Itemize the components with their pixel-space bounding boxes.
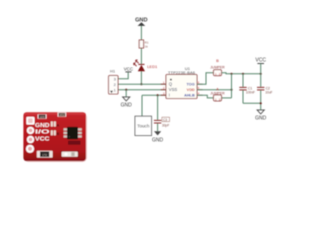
svg-text:B: B <box>216 58 219 63</box>
svg-text:472: 472 <box>60 113 65 117</box>
IC U1 TTP223E-BA6 <box>161 66 203 98</box>
wire jumper A riser <box>231 74 233 98</box>
pin 5 VDD stub <box>197 89 203 91</box>
wire H1 GND drop <box>125 90 127 97</box>
wire GND row H1 pin1 to U1 VSS <box>118 89 166 91</box>
LED LED1 <box>134 60 158 71</box>
pin 3 I stub <box>161 94 166 96</box>
capacitor C1 <box>239 86 255 94</box>
hole bottom <box>26 145 34 153</box>
svg-text:TOG: TOG <box>187 82 195 86</box>
pin 1 Q stub <box>161 83 166 85</box>
wire GND stem to R1 <box>140 25 142 41</box>
svg-text:1k: 1k <box>145 44 149 48</box>
wire drop to C3 <box>157 95 159 120</box>
hole VCC <box>27 136 34 143</box>
capacitor C2 <box>257 86 273 94</box>
svg-text:GND: GND <box>121 102 133 108</box>
svg-text:100nF: 100nF <box>246 91 255 95</box>
svg-text:I: I <box>169 92 170 97</box>
pin 2 VSS stub <box>161 89 166 91</box>
svg-text:I/O: I/O <box>35 130 50 136</box>
node C3 junction <box>157 94 159 96</box>
ground top <box>135 17 147 26</box>
svg-text:B: B <box>57 132 60 136</box>
chip R top (103) <box>38 114 47 119</box>
hole I/O <box>27 127 34 134</box>
ground C3 <box>152 131 164 143</box>
node VDD riser junction <box>230 89 232 91</box>
svg-text:10uF: 10uF <box>265 91 272 95</box>
svg-text:GND: GND <box>255 116 267 122</box>
pin 4 AHLB stub <box>197 94 203 96</box>
svg-text:Touch: Touch <box>137 124 150 129</box>
node C2 on rail <box>260 73 262 75</box>
svg-text:VCC: VCC <box>124 67 133 72</box>
resistor R1 <box>139 40 149 48</box>
wire C1 to bottom rail <box>242 90 244 103</box>
svg-text:103: 103 <box>40 115 45 119</box>
wire I/O row H1 pin2 to U1 Q <box>118 83 166 85</box>
svg-text:VSS: VSS <box>169 87 178 92</box>
touch pad box <box>135 116 152 135</box>
svg-text:30pF: 30pF <box>162 124 169 128</box>
wire bottom rail to ground <box>243 103 261 110</box>
svg-text:VCC: VCC <box>255 58 266 64</box>
PCB module photo <box>23 112 87 162</box>
wire AHLB to jumper A pin1 <box>197 95 214 98</box>
node GND drop junction <box>125 89 127 91</box>
svg-text:AHLB: AHLB <box>184 93 195 97</box>
svg-text:TTP223E-BA6: TTP223E-BA6 <box>168 70 196 75</box>
board <box>23 112 86 161</box>
bottom LED component <box>60 151 79 158</box>
svg-text:JUMPER: JUMPER <box>210 65 225 69</box>
pin 6 TOG stub <box>197 83 203 85</box>
jumper pad B <box>51 130 60 136</box>
jumper A <box>210 86 225 101</box>
svg-text:GND: GND <box>152 138 164 144</box>
wire drop to Touch pad <box>141 95 143 116</box>
bottom resistor chip <box>37 151 53 158</box>
svg-text:LED1: LED1 <box>147 64 158 69</box>
node Q junction with LED <box>140 83 142 85</box>
svg-text:A: A <box>57 123 60 127</box>
wire LED1 anode to Q node <box>140 71 142 84</box>
wire C2 to bottom rail <box>260 90 262 103</box>
svg-text:VCC: VCC <box>35 136 50 142</box>
svg-text:H1: H1 <box>110 68 116 73</box>
capacitor C3 <box>154 117 170 127</box>
node A riser on rail <box>230 73 232 75</box>
power VCC left <box>124 67 133 72</box>
node bottom rail junction <box>260 102 262 104</box>
wire VDD row to riser <box>197 89 232 91</box>
wire VCC rail right <box>222 73 261 74</box>
svg-text:VDD: VDD <box>187 88 195 92</box>
pad square GND hole <box>26 117 34 125</box>
dark pad below IC <box>68 141 81 145</box>
power VCC right <box>255 58 266 74</box>
ground H1 <box>121 97 133 108</box>
svg-text:1?2: 1?2 <box>42 153 47 157</box>
IC TTP223 chip <box>64 127 82 139</box>
wire C1 drop <box>242 74 244 87</box>
node C1 on rail <box>242 73 244 75</box>
wire U1 I pin row to touch <box>142 94 166 96</box>
wire C2 drop <box>260 74 262 87</box>
ground right <box>255 110 267 122</box>
jumper B <box>210 58 225 76</box>
wire VCC hook to H1 pin3 <box>118 72 128 79</box>
jumper pad A <box>51 121 60 127</box>
svg-text:C3: C3 <box>163 118 167 122</box>
wire jumper A pin2 <box>222 97 232 99</box>
board shadow <box>24 113 87 162</box>
wire TOG to jumper B pin1 <box>197 73 214 84</box>
svg-text:GND: GND <box>35 123 50 129</box>
connector H1 <box>109 68 118 94</box>
wire C3 to ground <box>157 124 159 132</box>
chip C top <box>58 112 67 117</box>
wire R1 to LED1 cathode <box>140 48 142 65</box>
